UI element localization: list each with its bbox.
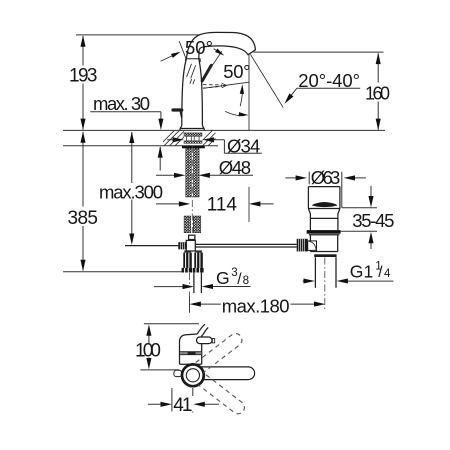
svg-text:Ø48: Ø48 — [219, 157, 251, 178]
svg-text:max.300: max.300 — [99, 181, 163, 202]
svg-text:50°: 50° — [223, 61, 250, 82]
svg-text:193: 193 — [69, 66, 98, 87]
svg-text:/: / — [237, 271, 242, 288]
svg-text:Ø63: Ø63 — [311, 167, 341, 188]
svg-text:41: 41 — [173, 395, 192, 416]
svg-text:max. 30: max. 30 — [93, 93, 150, 114]
svg-text:114: 114 — [207, 195, 238, 216]
svg-text:G1: G1 — [350, 262, 373, 282]
svg-text:max.180: max.180 — [222, 296, 290, 317]
svg-text:4: 4 — [384, 267, 391, 280]
svg-text:35-45: 35-45 — [352, 210, 394, 231]
svg-text:160: 160 — [365, 84, 390, 104]
svg-text:8: 8 — [243, 274, 249, 287]
svg-text:G: G — [216, 268, 230, 288]
svg-text:100: 100 — [135, 341, 161, 362]
svg-text:Ø34: Ø34 — [227, 135, 260, 156]
svg-text:/: / — [378, 264, 383, 281]
svg-text:50°: 50° — [185, 37, 213, 58]
svg-text:20°-40°: 20°-40° — [298, 70, 360, 91]
svg-text:385: 385 — [68, 208, 99, 229]
